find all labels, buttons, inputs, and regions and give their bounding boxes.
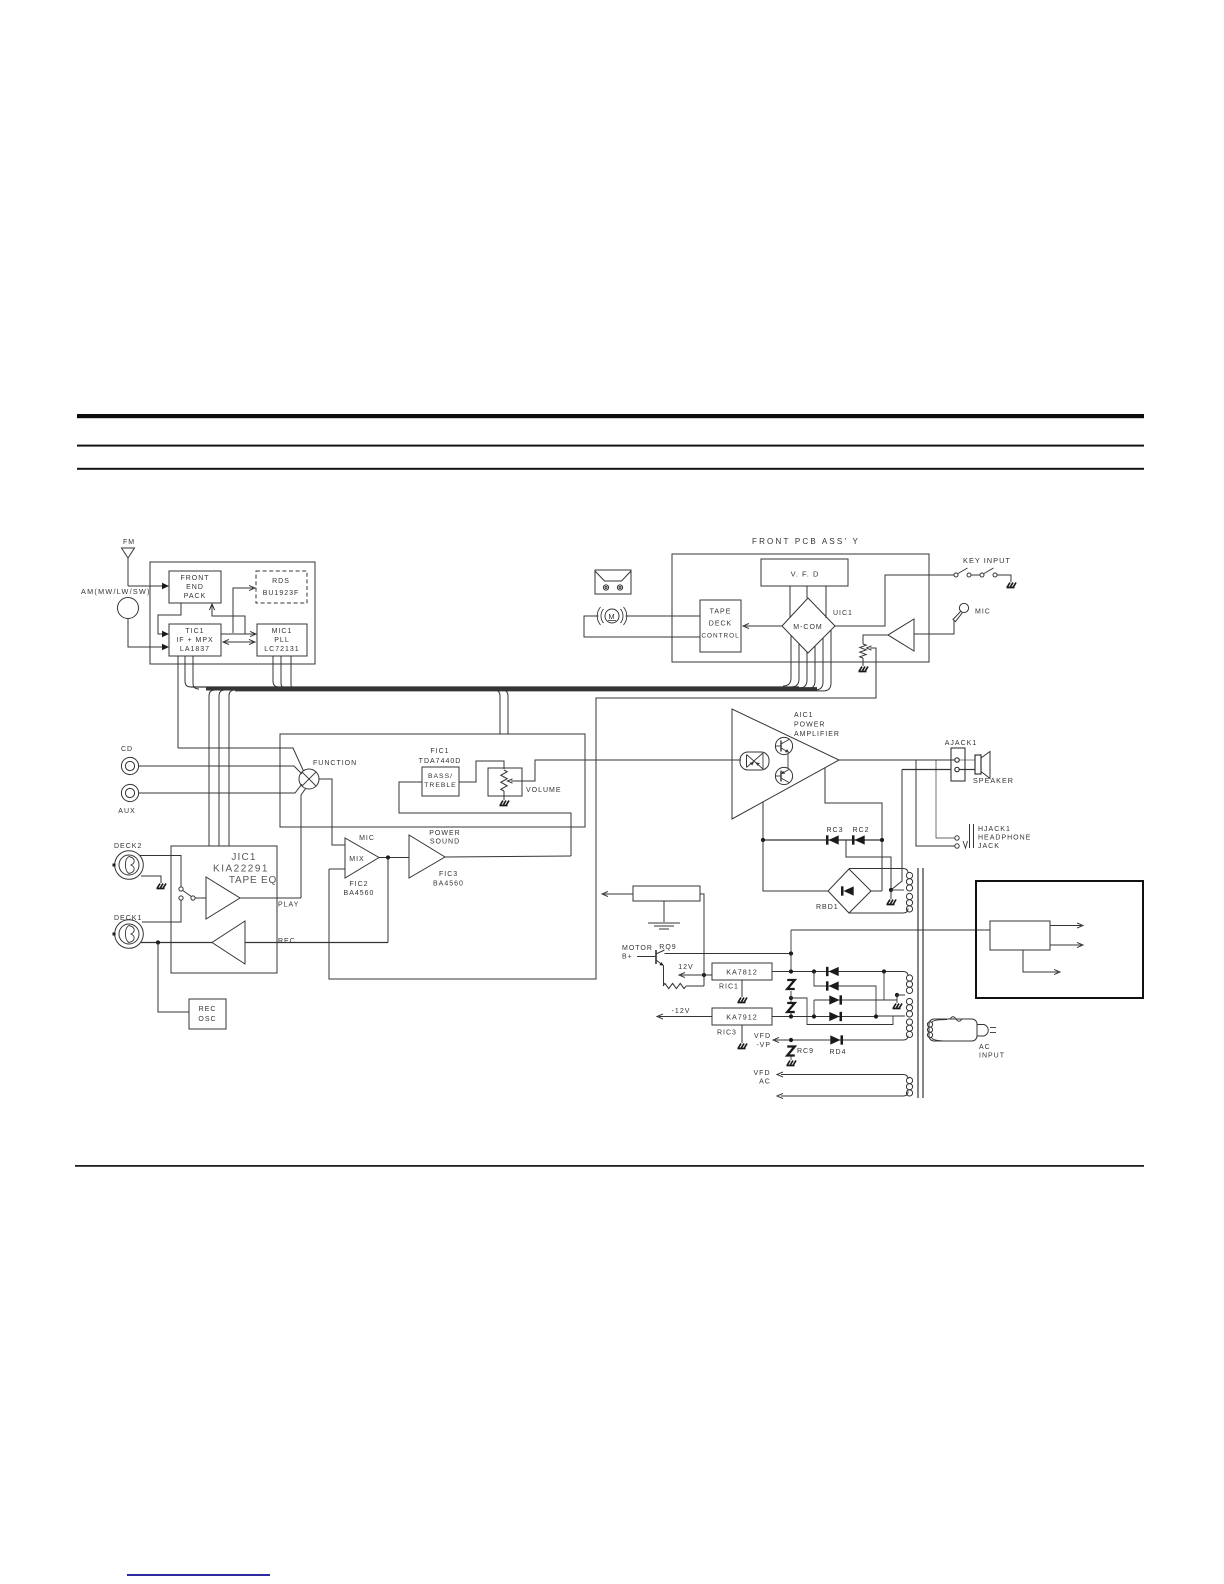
svg-text:RQ9: RQ9: [659, 944, 676, 951]
wire function output right: [319, 779, 345, 845]
wire deck1 to rec amp: [140, 942, 212, 944]
headphone jack circles: [955, 836, 959, 840]
wire DECK1 to switch: [142, 900, 181, 922]
svg-text:SOUND: SOUND: [430, 839, 460, 846]
ground below mic volume: [862, 658, 864, 666]
winding secondary 2 mid: [906, 998, 912, 1004]
svg-text:TAPE: TAPE: [710, 609, 732, 616]
svg-text:MIC: MIC: [359, 835, 375, 842]
wire rectifier row 3: [814, 999, 884, 1001]
wire to speaker: [959, 769, 975, 771]
rec amplifier: [212, 921, 245, 964]
block MIC1 PLL LC72131: [257, 624, 307, 656]
wire collector to node: [665, 953, 792, 955]
resistor at RQ9: [663, 983, 686, 988]
bus drop wire to JIC1 a: [209, 690, 215, 846]
AC input cable: [929, 1019, 977, 1041]
diode row4: [829, 1012, 839, 1021]
block RDS BU1923F: [256, 571, 307, 603]
svg-text:TREBLE: TREBLE: [424, 782, 456, 789]
arrow into tape deck control: [743, 623, 749, 628]
wire play output: [240, 897, 301, 899]
tone control block box: [280, 734, 585, 827]
block TIC1 IF+MPX LA1837: [169, 624, 221, 656]
output interface box: [976, 881, 1143, 998]
arrow into TIC1 (front end): [162, 631, 169, 638]
wire KA7912 ground: [741, 1025, 743, 1043]
block TAPE DECK CONTROL: [700, 600, 741, 652]
arrow into RDS: [249, 585, 255, 590]
svg-text:REC: REC: [199, 1006, 217, 1013]
wire mic volume wiper: [870, 648, 876, 651]
connector DECK2: [115, 851, 144, 880]
svg-text:KA7812: KA7812: [726, 968, 758, 977]
svg-text:V. F. D: V. F. D: [791, 570, 820, 579]
FM antenna: [122, 548, 135, 558]
svg-text:PLAY: PLAY: [278, 902, 299, 909]
svg-text:HJACK1: HJACK1: [978, 826, 1011, 833]
svg-text:AJACK1: AJACK1: [945, 740, 977, 747]
zener Z lower: [787, 1003, 795, 1012]
svg-text:BU1923F: BU1923F: [263, 590, 300, 597]
junction row4 b: [812, 1014, 816, 1018]
svg-text:-VP: -VP: [756, 1042, 771, 1049]
wire branch up to front-end pack: [212, 605, 245, 634]
block BASS/TREBLE: [422, 767, 459, 796]
svg-text:RD4: RD4: [829, 1049, 846, 1056]
front pcb box: [672, 554, 929, 662]
svg-text:CD: CD: [121, 746, 133, 753]
svg-text:POWER: POWER: [429, 830, 460, 837]
power amplifier AIC1: [732, 709, 839, 819]
diode RD4: [830, 1035, 840, 1044]
block REC OSC: [189, 999, 226, 1029]
winding secondary 1 lower: [906, 893, 912, 899]
svg-text:MIX: MIX: [349, 856, 364, 863]
block V.F.D: [761, 559, 848, 586]
wire TIC1 to MIC1: [221, 633, 255, 635]
svg-text:REC: REC: [278, 938, 296, 945]
potentiometer VOLUME: [501, 770, 507, 791]
page rule 2: [77, 445, 1144, 447]
wire row3 riser to row1: [883, 972, 885, 1001]
arrow up into front-end pack: [209, 604, 214, 610]
junction row4 c: [874, 1014, 878, 1018]
svg-text:KIA22291: KIA22291: [213, 864, 269, 875]
transistor Q bottom: [775, 767, 792, 784]
motor icon: [605, 609, 619, 623]
primary winding AC side: [932, 1020, 948, 1024]
svg-text:DECK1: DECK1: [114, 915, 142, 922]
junction amp tap A: [761, 838, 765, 842]
vfd ac arrow 1: [777, 1072, 783, 1077]
junction deck1/rec-osc: [156, 940, 160, 944]
diode row3: [829, 995, 839, 1004]
wire vfd-vp row: [775, 1039, 842, 1041]
svg-text:MIC: MIC: [975, 609, 991, 616]
svg-text:MIC1: MIC1: [272, 628, 293, 635]
svg-text:AMPLIFIER: AMPLIFIER: [794, 731, 840, 738]
transformer core: [917, 868, 919, 1098]
wire volume to power amp: [522, 760, 741, 781]
wire AM to TIC1: [128, 619, 162, 648]
block FRONT END PACK: [169, 571, 221, 603]
svg-text:FUNCTION: FUNCTION: [313, 760, 357, 767]
svg-text:12V: 12V: [678, 964, 693, 971]
svg-text:LA1837: LA1837: [180, 646, 210, 653]
svg-text:TAPE EQ: TAPE EQ: [229, 875, 277, 886]
wire power sound output: [445, 856, 571, 857]
wire amp lower tap A: [762, 802, 764, 840]
svg-text:FM: FM: [123, 539, 135, 546]
arrow output 3: [1023, 950, 1058, 972]
page rule (bottom): [75, 1165, 1144, 1167]
svg-text:VOLUME: VOLUME: [526, 787, 562, 794]
ground below KA7912: [738, 1044, 748, 1049]
diode RC3: [829, 835, 839, 844]
block JIC1 KIA22291 TAPE EQ: [171, 846, 277, 973]
wire bass/treble to volume: [459, 761, 504, 782]
wire zener mid return: [791, 998, 893, 1025]
LA1837 pin wire 1 (to function): [177, 656, 179, 748]
svg-text:PACK: PACK: [184, 593, 207, 600]
arrow output 2: [1050, 944, 1081, 946]
winding secondary 1 upper: [849, 869, 908, 874]
VFD pin wires: [789, 586, 791, 617]
page rule 3: [77, 468, 1144, 470]
winding lead bottom: [842, 1036, 908, 1041]
svg-text:FIC1: FIC1: [430, 748, 449, 755]
AC plug: [977, 1025, 988, 1037]
wire speaker return: [902, 769, 951, 771]
wire between transistors: [787, 754, 789, 768]
wire mix output: [379, 857, 409, 859]
bus wire (main harness): [191, 686, 799, 688]
microphone icon: [959, 603, 968, 612]
bus drop wire to JIC1 b: [219, 690, 225, 846]
svg-text:FIC2: FIC2: [349, 881, 368, 888]
wire power sound feedback to bass/treble: [399, 782, 571, 856]
svg-text:RIC1: RIC1: [719, 984, 739, 991]
ground node junction: [889, 888, 893, 892]
junction dc rail / collector: [789, 951, 793, 955]
svg-text:KEY INPUT: KEY INPUT: [963, 556, 1011, 565]
svg-text:TDA7440D: TDA7440D: [419, 758, 462, 765]
mic volume pot: [860, 644, 866, 658]
LC72131 pin wire 3: [291, 656, 297, 690]
svg-text:M-COM: M-COM: [793, 624, 823, 631]
junction row4 a: [789, 1014, 793, 1018]
vfd ac arrow 2: [777, 1093, 783, 1098]
headphone jack symbol: [969, 824, 971, 848]
wire rc row: [763, 839, 882, 841]
svg-text:JACK: JACK: [978, 843, 1000, 850]
svg-text:DECK2: DECK2: [114, 843, 142, 850]
winding secondary 2 upper: [772, 972, 908, 977]
wire -12V output arrow: [659, 1016, 712, 1018]
svg-text:TIC1: TIC1: [185, 628, 204, 635]
wire front-end to TIC1 loop: [158, 603, 181, 634]
svg-text:POWER: POWER: [794, 722, 825, 729]
page rule (thick): [77, 414, 1144, 418]
ground below KA7812: [738, 998, 748, 1003]
svg-text:AUX: AUX: [118, 808, 135, 815]
arrow into MIC1: [250, 631, 256, 636]
wire function output down to play: [301, 788, 306, 898]
diode RC2: [855, 835, 865, 844]
wire resistor to reg input riser: [686, 985, 704, 987]
volume control box: [488, 768, 522, 796]
svg-text:JIC1: JIC1: [231, 852, 256, 863]
mic amplifier: [888, 619, 914, 651]
sub power box: [633, 886, 700, 901]
svg-text:BA4560: BA4560: [433, 881, 464, 888]
mix amplifier FIC2: [345, 838, 379, 878]
wire rectifier row 4: [772, 1016, 876, 1018]
wire mic amp to mic volume: [863, 635, 888, 644]
LC72131 pin wire 2: [281, 656, 287, 689]
dc rail riser: [790, 930, 792, 954]
svg-text:OSC: OSC: [198, 1016, 216, 1023]
svg-text:INPUT: INPUT: [979, 1053, 1005, 1060]
svg-text:AIC1: AIC1: [794, 712, 814, 719]
junction row1 a: [789, 969, 793, 973]
bridge rectifier RBD1: [828, 869, 871, 913]
wire rectifier row 2: [814, 972, 876, 1017]
wire node to winding tap: [891, 889, 904, 891]
svg-text:LC72131: LC72131: [264, 646, 299, 653]
wire motor to tape deck control (lower): [584, 616, 700, 637]
ground at transformer node: [887, 900, 897, 905]
LC72131 pin wire 1: [273, 656, 279, 687]
svg-text:AM(MW/LW/SW): AM(MW/LW/SW): [81, 587, 151, 596]
connector CD: [121, 757, 138, 774]
junction row1 b: [812, 969, 816, 973]
wire 12V output arrow: [681, 974, 712, 976]
svg-text:-12V: -12V: [672, 1008, 691, 1015]
svg-text:UIC1: UIC1: [833, 610, 853, 617]
junction row1 c: [882, 969, 886, 973]
wire KA7812 ground: [741, 980, 743, 997]
bus drop wires to tone block: [494, 690, 500, 734]
connector AUX: [121, 784, 138, 801]
svg-text:KA7912: KA7912: [726, 1013, 758, 1022]
ground below RC9: [787, 1061, 797, 1066]
arrow into TIC1 (AM): [162, 644, 169, 651]
play amplifier: [206, 877, 240, 919]
zener RC9: [787, 1047, 795, 1056]
svg-text:B+: B+: [622, 954, 633, 961]
junction vfd-vp: [789, 1038, 793, 1042]
wire motor b+ to transistor: [637, 956, 656, 958]
svg-text:RC2: RC2: [852, 827, 869, 834]
svg-text:VFD: VFD: [754, 1070, 771, 1077]
ground at winding tap: [893, 1004, 903, 1009]
winding VFD AC: [781, 1075, 908, 1080]
microcomputer UIC1 M-COM: [782, 598, 835, 653]
wire key input to ground: [997, 575, 1011, 582]
svg-text:HEADPHONE: HEADPHONE: [978, 835, 1031, 842]
wire CD to function: [139, 766, 302, 774]
key input switches: [954, 573, 958, 577]
LA1837 pin wire 2: [185, 656, 191, 687]
connector AJACK1: [951, 748, 965, 781]
wire bridge right to node: [871, 890, 882, 892]
wire rec input: [245, 942, 388, 944]
wire rc left to bridge: [763, 840, 828, 891]
svg-text:BA4560: BA4560: [344, 890, 375, 897]
wire mic input to mix: [329, 868, 345, 870]
wire M-COM to key input: [835, 575, 954, 626]
svg-text:RBD1: RBD1: [816, 904, 839, 911]
svg-text:END: END: [186, 584, 204, 591]
sub block in output box: [990, 921, 1050, 950]
regulator KA7912 RIC3: [712, 1008, 772, 1025]
svg-text:AC: AC: [759, 1079, 771, 1086]
speaker icon: [975, 755, 981, 774]
winding tap 2 lower: [876, 1015, 905, 1017]
svg-text:PLL: PLL: [274, 637, 289, 644]
svg-text:CONTROL: CONTROL: [701, 633, 739, 640]
winding tap 2 mid: [895, 993, 899, 997]
function selector switch: [299, 769, 319, 789]
AM loop antenna: [118, 598, 139, 619]
wire amp lower tap B: [825, 768, 882, 891]
wire rc mid stub to node: [846, 840, 891, 890]
wire switch to play amp: [195, 897, 206, 899]
diode row1: [829, 967, 839, 976]
mic signal return wire: [329, 651, 876, 979]
zener Z upper: [787, 980, 795, 989]
wire DECK2 ground stub: [141, 876, 161, 883]
junction zener mid: [789, 996, 793, 1000]
wire tuner to function: [178, 748, 304, 771]
wire top vertex of bridge to winding: [848, 868, 850, 871]
svg-text:SPEAKER: SPEAKER: [973, 776, 1014, 785]
junction rc row right: [880, 838, 884, 842]
svg-text:IF + MPX: IF + MPX: [176, 637, 213, 644]
ground below volume pot: [503, 791, 505, 800]
footer link underline: [127, 1574, 270, 1576]
power sound amplifier FIC3: [409, 835, 445, 878]
wire DECK2 to switch: [140, 856, 181, 888]
wire mic to mic amp: [914, 621, 954, 634]
ground at key input: [1007, 583, 1017, 588]
amp input stage icon: [740, 752, 769, 770]
wire TIC1 to RDS: [233, 588, 253, 633]
deck select switch: [179, 887, 183, 891]
svg-text:FIC3: FIC3: [439, 871, 458, 878]
svg-text:MOTOR: MOTOR: [622, 945, 653, 952]
wire amp output: [839, 759, 955, 761]
svg-text:FRONT: FRONT: [180, 575, 209, 582]
wire amp out to headphone jack: [916, 760, 955, 846]
wire dc feed to sub box: [791, 929, 990, 931]
tuner assembly box: [150, 562, 315, 664]
svg-text:VFD: VFD: [754, 1033, 771, 1040]
svg-text:RC3: RC3: [826, 827, 843, 834]
bus drop wire to JIC1 c: [229, 690, 235, 846]
wire AUX to function: [139, 784, 302, 793]
transistor RQ9: [655, 950, 657, 964]
junction mix output / rec: [386, 855, 390, 859]
bidirectional wire TIC1-MIC1: [224, 641, 254, 643]
wire motor to tape deck control (upper): [626, 615, 701, 617]
wire to rec oscillator: [158, 943, 189, 1013]
svg-text:RC9: RC9: [797, 1048, 814, 1055]
diode row2: [829, 981, 839, 990]
svg-text:BASS/: BASS/: [428, 773, 453, 780]
winding secondary 2 lower: [906, 1019, 912, 1025]
svg-text:RIC3: RIC3: [717, 1030, 737, 1037]
svg-text:RDS: RDS: [272, 578, 290, 585]
bus riser wires to M-COM: [783, 635, 791, 686]
cassette icon: [595, 570, 631, 594]
junction 12v riser: [702, 973, 706, 977]
wire FM to front-end: [128, 585, 162, 587]
wire rectifier row 1: [772, 971, 903, 973]
wire emitter to resistor: [663, 966, 665, 987]
svg-text:M: M: [608, 612, 615, 621]
wire sub power box to riser: [700, 894, 704, 986]
ground at DECK2: [157, 884, 167, 889]
arrow out of sub power box: [604, 893, 633, 895]
earth below sub power box: [663, 901, 665, 922]
transistor Q top: [775, 737, 792, 754]
LA1837 pin wire 3: [193, 656, 199, 689]
svg-text:DECK: DECK: [709, 621, 732, 628]
connector DECK1: [115, 920, 144, 949]
arrow into FRONT END PACK: [162, 583, 169, 590]
svg-text:FRONT PCB ASS' Y: FRONT PCB ASS' Y: [752, 537, 860, 546]
svg-text:AC: AC: [979, 1044, 991, 1051]
wire M-COM to tape deck control: [745, 625, 782, 627]
arrow output 1: [1050, 925, 1081, 927]
regulator KA7812 RIC1: [712, 963, 772, 980]
wire rec branch up: [387, 858, 389, 943]
